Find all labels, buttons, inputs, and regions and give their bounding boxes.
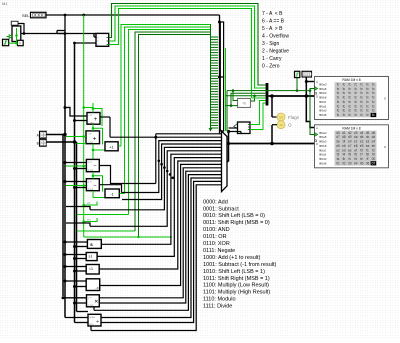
svg-text:=1: =1 [89, 267, 93, 271]
svg-text:c in: c in [88, 296, 92, 299]
svg-text:0000: Add: 0000: Add [203, 199, 228, 205]
svg-text:B: B [37, 142, 39, 146]
svg-text:4 - Overflow: 4 - Overflow [262, 34, 289, 40]
svg-text:D: D [316, 142, 318, 146]
svg-text:D: D [316, 94, 318, 98]
svg-text:5 - A > B: 5 - A > B [262, 26, 283, 32]
svg-text:fc: fc [372, 113, 375, 117]
svg-text:upper: upper [89, 316, 95, 319]
svg-text:b out: b out [88, 169, 94, 172]
svg-text:A: A [316, 80, 318, 84]
svg-text:c out: c out [88, 121, 94, 124]
svg-text:+5: +5 [242, 102, 246, 106]
svg-text:0010: Shift Left (LSB = 0): 0010: Shift Left (LSB = 0) [203, 213, 265, 219]
svg-text:1001: Subtract (-1 from result: 1001: Subtract (-1 from result) [203, 262, 277, 268]
svg-text:−: − [93, 183, 96, 189]
svg-text:+: + [93, 137, 97, 143]
svg-text:b out: b out [88, 188, 94, 191]
svg-text:30: 30 [279, 123, 283, 127]
svg-text:A: A [316, 126, 318, 130]
svg-text:fc: fc [343, 113, 346, 117]
svg-text:b in: b in [88, 180, 93, 183]
svg-text:SEL: SEL [22, 13, 30, 18]
svg-text:6 - A == B: 6 - A == B [262, 19, 285, 25]
svg-text:fff0d8: fff0d8 [319, 161, 327, 165]
svg-text:0111: Negate: 0111: Negate [203, 248, 235, 254]
svg-text:-x: -x [96, 286, 99, 290]
svg-text:RAM 1M x 8: RAM 1M x 8 [342, 78, 360, 82]
svg-text:1101: Multiply (High Result): 1101: Multiply (High Result) [203, 290, 270, 296]
svg-text:02: 02 [342, 161, 346, 165]
svg-text:c out: c out [88, 304, 94, 307]
svg-text:0001: Subtract: 0001: Subtract [203, 206, 239, 212]
svg-text:fc: fc [360, 113, 363, 117]
svg-text:c in: c in [88, 132, 92, 135]
svg-text:0100: AND: 0100: AND [203, 227, 230, 233]
svg-text:+: + [94, 117, 98, 123]
svg-text:2 - Negative: 2 - Negative [262, 49, 289, 55]
svg-text:c in: c in [88, 114, 92, 117]
svg-text:Flags: Flags [288, 115, 300, 120]
svg-text:shr: shr [87, 217, 91, 221]
svg-text:07: 07 [372, 161, 376, 165]
svg-text:fc: fc [366, 113, 369, 117]
svg-text:&: & [90, 242, 93, 247]
svg-text:D: D [384, 145, 386, 149]
svg-text:00: 00 [279, 115, 283, 119]
svg-text:+1: +1 [109, 144, 114, 149]
svg-text:1010: Shift Left (LSB = 1): 1010: Shift Left (LSB = 1) [203, 269, 265, 275]
svg-text:3 - Sign: 3 - Sign [262, 41, 279, 47]
svg-text:7 - A < B: 7 - A < B [262, 11, 283, 17]
svg-text:1110: Modulo: 1110: Modulo [203, 297, 236, 303]
svg-text:>: > [97, 43, 99, 47]
svg-text:1000: Add (+1 to result): 1000: Add (+1 to result) [203, 255, 260, 261]
svg-text:✕: ✕ [94, 299, 98, 305]
svg-text:D: D [384, 97, 386, 101]
svg-text:÷: ÷ [96, 320, 99, 326]
svg-text:fc: fc [349, 113, 352, 117]
svg-text:04: 04 [354, 161, 358, 165]
svg-text:05: 05 [360, 161, 364, 165]
svg-text:fc: fc [337, 113, 340, 117]
svg-text:1111: Divide: 1111: Divide [203, 304, 232, 310]
svg-text:c out: c out [88, 141, 94, 144]
svg-text:O: O [288, 123, 292, 128]
svg-text:M1: M1 [2, 1, 8, 6]
svg-text:b in: b in [88, 161, 93, 164]
svg-text:shl: shl [87, 201, 91, 205]
svg-text:1011: Shift Right (MSB = 1): 1011: Shift Right (MSB = 1) [203, 276, 270, 282]
svg-text:0011: Shift Right (MSB = 0): 0011: Shift Right (MSB = 0) [203, 220, 270, 226]
svg-text:−: − [93, 164, 96, 170]
svg-text:06: 06 [366, 161, 370, 165]
svg-text:03: 03 [348, 161, 352, 165]
svg-text:0110: XOR: 0110: XOR [203, 241, 230, 247]
svg-text:0 - Zero: 0 - Zero [262, 64, 280, 70]
svg-text:0: 0 [19, 42, 21, 46]
svg-text:≥1: ≥1 [89, 255, 93, 259]
svg-text:fc: fc [354, 113, 357, 117]
svg-text:1 - Carry: 1 - Carry [262, 56, 282, 62]
svg-text:rem: rem [89, 323, 93, 326]
svg-text:fff0d8: fff0d8 [319, 113, 327, 117]
svg-text:1100: Multiply (Low Result): 1100: Multiply (Low Result) [203, 283, 269, 289]
svg-text:01: 01 [336, 161, 340, 165]
svg-text:0101: OR: 0101: OR [203, 234, 227, 240]
